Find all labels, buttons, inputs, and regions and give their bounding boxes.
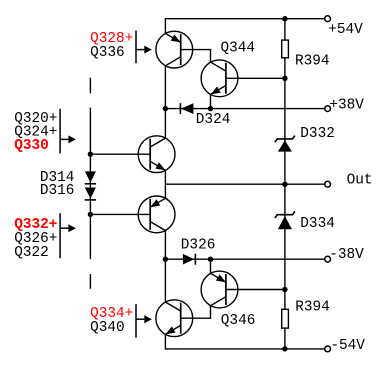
svg-text:Q336: Q336 — [90, 45, 125, 61]
svg-text:-54V: -54V — [330, 338, 365, 354]
svg-text:Q346: Q346 — [221, 313, 256, 329]
svg-text:D332: D332 — [300, 126, 335, 142]
svg-text:-38V: -38V — [329, 247, 364, 263]
svg-text:+54V: +54V — [328, 22, 363, 38]
svg-text:D324: D324 — [196, 112, 231, 128]
svg-text:R394: R394 — [295, 53, 330, 69]
svg-text:D326: D326 — [181, 238, 216, 254]
svg-text:D334: D334 — [300, 216, 335, 232]
svg-text:Q322: Q322 — [14, 245, 49, 261]
svg-text:D316: D316 — [40, 183, 75, 199]
svg-text:Q330: Q330 — [14, 138, 49, 154]
svg-text:+38V: +38V — [329, 97, 364, 113]
svg-text:Q340: Q340 — [90, 320, 125, 336]
svg-text:Q344: Q344 — [221, 41, 256, 57]
svg-text:Out: Out — [347, 172, 373, 188]
svg-text:R394: R394 — [295, 299, 330, 315]
